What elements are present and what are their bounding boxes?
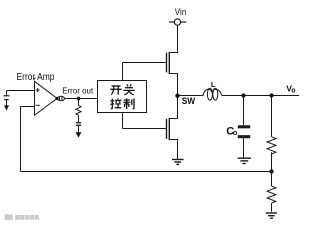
svg-text:Error Amp: Error Amp (17, 72, 55, 83)
svg-text:Vin: Vin (175, 7, 187, 18)
svg-text:o: o (233, 128, 238, 137)
svg-text:o: o (291, 87, 295, 94)
svg-text:Error out: Error out (62, 86, 94, 96)
svg-text:SW: SW (182, 96, 196, 107)
svg-text:L: L (211, 80, 216, 89)
